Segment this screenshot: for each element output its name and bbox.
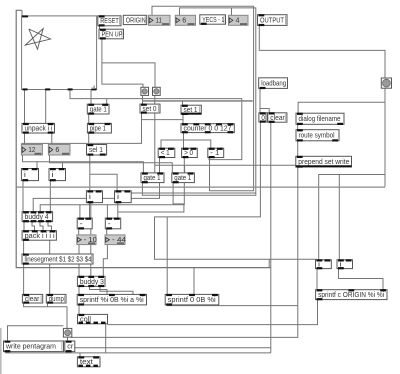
object gate 1 b [172,172,195,183]
wire to dialog filename [298,102,385,113]
object dialog filename [296,113,344,125]
object coll [78,314,108,324]
svg-text:pack i i i i: pack i i i i [25,233,55,240]
wire i3 to buddy3 [90,203,92,277]
object pack i i i i [22,230,56,241]
wire to write pentagram [8,326,64,341]
wire sprintf1 to coll [78,305,80,315]
svg-text:> 0: > 0 [184,150,193,157]
svg-text:clear: clear [270,115,285,122]
wire branch to bottom bus [268,259,270,267]
canvas graphic area [22,15,97,90]
object loadbang [259,78,288,89]
wire drop to i2 [62,163,64,169]
wire to i box left [319,175,385,260]
svg-text:route symbol: route symbol [299,133,335,140]
object lt 1 [158,148,175,159]
object i 2 [49,168,66,181]
svg-text:clear: clear [25,296,40,303]
wire canvas out4 to gate [90,90,92,105]
wire bus y348 [72,347,271,349]
wire buddy out2 [32,222,35,231]
wire down to sprintf2 [166,217,168,295]
message OUTPUT [258,14,288,26]
message linesegment [22,254,93,265]
wire route to prepend [297,141,299,157]
wire bottom bus [6,352,271,353]
svg-text:loadbang: loadbang [261,81,286,88]
wire bang2 down to gate [154,95,156,172]
number 11 [149,15,171,25]
wire bus to minusA [79,205,81,218]
bang button 3 [63,328,71,337]
wire loadbang to clear [260,109,269,113]
svg-text:4: 4 [236,18,240,25]
wire to dump [49,240,51,294]
svg-text:YECS - 1: YECS - 1 [202,17,224,24]
svg-text:gate 1: gate 1 [90,107,107,114]
wire i5 to sprintfc [316,269,318,290]
svg-text:6: 6 [182,18,186,25]
svg-text:text: text [80,359,93,366]
object minus 1 [208,148,224,159]
svg-text:sel 1: sel 1 [89,147,103,154]
wire bus to sprintf2 in2 [193,268,195,295]
wire set1 to counter [182,114,184,123]
object pipe 1 [87,123,111,134]
svg-text:unpack i i: unpack i i [25,126,53,133]
svg-text:prepend set write: prepend set write [298,159,349,166]
object gate 1 a [141,172,164,183]
object i 5 [316,259,332,269]
object prepend set write [296,156,352,168]
svg-text:- 10: - 10 [84,237,97,244]
wire set0 to counter [142,120,184,124]
wire gate to pipe [88,114,90,123]
wire sel to i3 [89,155,91,191]
wire clear right down [270,122,272,353]
svg-text:- 1: - 1 [210,150,219,157]
window edge [0,328,2,374]
wire lt1 to buddy [33,158,159,212]
number -10 [77,235,97,245]
bang button 2 [153,87,161,95]
svg-text:12: 12 [28,147,35,154]
wire 6 to gate-b [50,155,173,173]
object route symbol [296,129,339,141]
object buddy 4 [22,211,52,222]
wire i2 to buddy [49,181,51,212]
message set 1 [181,105,201,115]
wire counter to tests [161,140,211,148]
message clear lower [22,294,42,304]
wire gt0 to buddy [40,158,184,212]
wire unpack to 6 [51,133,53,145]
message RESET [98,15,121,26]
wire loadbang to 0 [259,88,261,112]
svg-text:set 0: set 0 [143,106,157,113]
svg-text:linesegment $1 $2 $3 $4: linesegment $1 $2 $3 $4 [25,256,92,263]
object minus B [105,218,120,230]
object gt 0 [182,148,198,159]
wire -10 to buddy3 [78,245,80,277]
object i 1 [21,168,38,181]
svg-text:6: 6 [55,147,59,154]
wire buddy3 out3 [100,286,133,294]
wire counter to gt0 [183,133,185,149]
message ORIGIN [123,15,146,24]
object text [77,356,100,367]
message dump [46,294,66,304]
wire prepend down to bus337 [71,167,298,338]
number -44 [105,235,126,245]
svg-text:dump: dump [49,296,64,303]
wire clear to bang3 [24,303,67,328]
svg-text:pipe 1: pipe 1 [90,126,106,133]
svg-text:sprintf 0 0B %i: sprintf 0 0B %i [168,297,216,304]
wire canvas out1 to unpack [24,90,26,124]
wire minusA to -10 [78,229,80,235]
wire to i box right [338,175,340,260]
message set 0 [140,104,160,114]
wire dump join [47,303,49,307]
wire pair to i4 [130,191,256,193]
object gate 1 upper [87,104,109,115]
svg-text:sprintf c ORIGIN %i %i: sprintf c ORIGIN %i %i [318,292,384,299]
wire bus to set1 [182,101,184,105]
wire bus to minusB [106,205,108,218]
number 4 [229,15,249,25]
wire sel branch to i4 [90,174,117,191]
wire pipe to sel [88,133,90,145]
svg-text:coll: coll [80,317,91,324]
message YECS-1 [200,15,226,25]
wire buddy out1 [23,222,25,231]
object sprintf 1 [77,294,146,306]
wire bang1 to set 0 [142,95,144,104]
wire i3 to minusA [89,203,91,219]
wire minusB to -44 [106,229,108,235]
number 6 [175,15,195,25]
wire coll out2 down [105,324,107,353]
svg-text:ORIGIN: ORIGIN [126,17,146,24]
wire sprintf2 out [167,304,298,307]
number 6b [48,145,70,156]
wire mid bus y165 [155,164,296,166]
wire drop into number 4 [231,8,233,16]
wire canvas out2 to unpack right [45,90,47,124]
wire 12 to gate-a [23,155,144,173]
svg-text:RESET: RESET [100,18,119,25]
wire RESET to PEN UP [99,26,101,29]
svg-text:write pentagram: write pentagram [5,344,56,351]
wire left-rail to bottom bus [16,10,271,267]
wire i6 to sprintfc right [339,269,384,290]
svg-text:counter 0 0 127: counter 0 0 127 [184,126,232,133]
wire drop to gate2 right inlet [184,165,186,173]
svg-text:buddy 4: buddy 4 [25,214,49,221]
wire canvas out3 bus [70,90,242,160]
wire OUTPUT to bang [259,25,385,78]
wire bang1 bus [143,100,253,102]
wire cr out [66,352,68,353]
wire 0 msg down to i5 [155,122,317,259]
svg-text:gate 1: gate 1 [144,175,161,182]
wire sprintfc to coll [108,300,318,325]
object i 4 [115,190,132,203]
object sprintf 2 [165,294,219,306]
wire i1 to buddy [22,181,24,212]
bang button top right [381,78,391,88]
object i 6 [337,259,353,269]
object sel 1 [87,144,107,156]
object minus A [77,218,92,230]
wire i4 to minusB [117,203,119,219]
wire drop to i1 [36,162,38,169]
svg-text:sprintf %i 0B %i a %i: sprintf %i 0B %i a %i [80,297,144,304]
wire unpack to 12 [24,133,26,145]
bang button 1 [141,87,149,95]
wire -44 to buddy3 [103,245,107,277]
svg-text:< 1: < 1 [161,150,170,157]
object buddy 3 [77,276,105,287]
object cr [65,341,75,353]
wire pack to linesegment [23,240,25,254]
svg-text:PEN UP: PEN UP [102,31,123,38]
wire bang3 to cr [67,337,69,341]
wire dialog to route [297,124,299,129]
object i 3 [86,190,102,203]
wire long bus y187 [16,186,385,188]
wire buddy out3 [40,222,43,231]
svg-text:11: 11 [156,18,163,25]
object unpack i i [22,123,55,134]
wire buddy3 out2 [90,286,108,294]
svg-text:- 44: - 44 [112,237,126,244]
wire set0 to number 12 [22,113,142,145]
wire PEN UP to bang2 [102,63,155,87]
object sprintf c [316,289,387,300]
wire buddy3 out1 [78,286,80,294]
wire into canvas inlet [21,10,23,16]
wire PEN UP to bang1 [102,39,143,88]
wire minus1 up to number bus [152,6,254,190]
object counter 0 0 127 [181,123,234,133]
wire bus to text [79,353,81,357]
svg-text:buddy 3: buddy 3 [80,279,104,286]
wire gate-a up to number bus [142,8,255,195]
wire bus drop to gate right inlet [106,99,108,105]
wire gate-b down-left [118,183,184,212]
message 0 [259,112,267,122]
svg-text:OUTPUT: OUTPUT [260,17,285,24]
message PEN UP [99,29,124,40]
pentagram star [25,29,50,50]
wire linesegment to clear [23,264,25,294]
wire buddy out4 [48,222,52,231]
number 12 [21,145,42,156]
svg-text:0: 0 [261,115,265,122]
message write pentagram [4,341,64,353]
message clear upper [268,112,287,123]
wire right bang down [384,88,386,187]
svg-text:set 1: set 1 [184,107,198,114]
svg-text:cr: cr [67,344,74,351]
svg-text:gate 1: gate 1 [174,175,191,182]
svg-text:dialog filename: dialog filename [299,116,341,123]
